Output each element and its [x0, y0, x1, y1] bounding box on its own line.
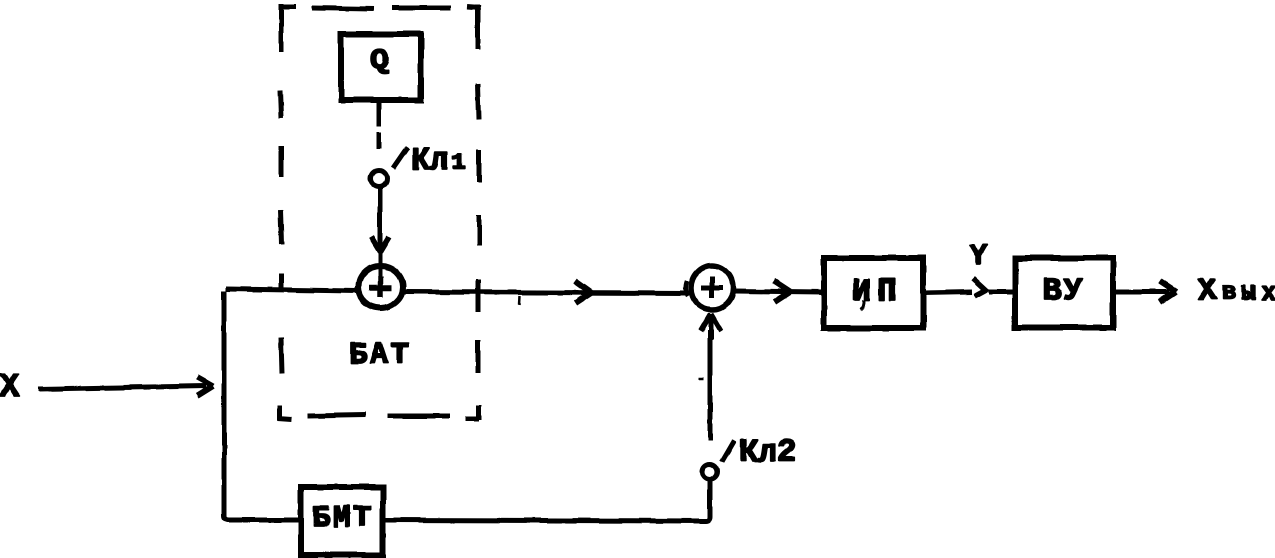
- left edge dashes: [279, 4, 284, 52]
- switch contact Kl1 (circle): [371, 171, 387, 187]
- summing junction 2 (+): [691, 266, 733, 310]
- input wire X with arrowhead: [38, 386, 206, 389]
- label X output: [1198, 279, 1216, 299]
- bottom edge dashes: [308, 415, 366, 416]
- label IP: [854, 279, 894, 300]
- block BMT: [301, 487, 383, 555]
- right edge dashes: [476, 5, 481, 50]
- summing junction 1 (+): [358, 266, 403, 308]
- label VU: [1045, 279, 1082, 300]
- switch contact Kl2 (circle): [703, 464, 718, 479]
- wire switch Kl1 to summer 1 with arrowhead: [378, 188, 383, 250]
- wire: IP to VU with Y arrow chevron: [923, 292, 972, 293]
- node vertical wire (left feedback branch): [224, 291, 300, 520]
- block Q: [341, 34, 421, 100]
- wire BMT to switch Kl2: [383, 480, 710, 521]
- label Q: [371, 49, 388, 73]
- label BMT: [314, 506, 370, 526]
- switch Kl2 lever slash: [722, 441, 735, 463]
- comma tail under letter И: [861, 300, 865, 310]
- top edge dashes: [281, 5, 296, 10]
- label X input: [0, 374, 19, 396]
- label X output subscript vyh: [1223, 286, 1275, 299]
- stray mark speck: [698, 377, 703, 380]
- label BAT: [351, 343, 408, 363]
- label Y: [970, 245, 987, 264]
- label Kl1 text: [413, 148, 447, 169]
- wire Q to switch Kl1: [377, 100, 382, 149]
- wire: node to summer 1: [226, 289, 357, 291]
- block VU: [1015, 258, 1113, 328]
- block IP: [824, 258, 923, 328]
- label Kl1 subscript 1: [454, 153, 465, 168]
- wire: VU to output with arrowhead: [1113, 290, 1170, 295]
- wire: switch Kl2 up to summer 2 with arrowhead: [708, 330, 713, 440]
- label Kl2 text: [741, 440, 795, 462]
- wire: summer 2 to block IP with arrowhead: [734, 291, 824, 292]
- stray tick below wire: [518, 296, 521, 305]
- dashed block boundary (БАТ dashed box): [278, 4, 481, 420]
- wire: summer 1 to summer 2 with arrowhead: [404, 292, 688, 293]
- switch Kl1 lever slash: [393, 148, 408, 169]
